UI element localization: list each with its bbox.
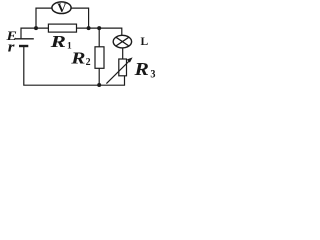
svg-text:V: V bbox=[57, 0, 67, 15]
svg-text:2: 2 bbox=[86, 57, 91, 68]
svg-text:L: L bbox=[141, 36, 149, 48]
svg-text:3: 3 bbox=[150, 68, 155, 81]
svg-text:r: r bbox=[8, 39, 15, 55]
svg-text:R: R bbox=[133, 60, 148, 80]
svg-text:R: R bbox=[70, 49, 85, 68]
svg-text:R: R bbox=[49, 33, 65, 52]
